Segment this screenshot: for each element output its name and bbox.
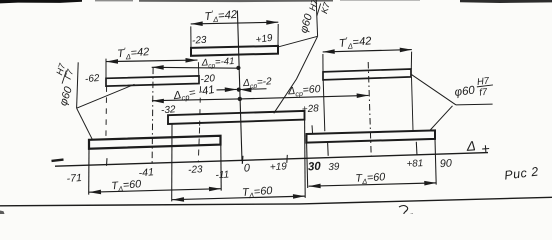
extension line 39 upper [322, 54, 324, 72]
axis label -41 [138, 166, 154, 179]
svg-text:39: 39 [328, 161, 340, 173]
svg-text:φ60: φ60 [454, 85, 476, 99]
axis label -23 [188, 164, 203, 176]
caption Рис 2 [504, 164, 540, 182]
label +19 upper [255, 33, 274, 46]
label -32 [161, 104, 177, 116]
label Δcp=-41 upper [200, 56, 234, 70]
fit label Ø60 H7/f7 [453, 75, 494, 101]
extension line 81 upper [410, 52, 412, 69]
svg-text:Δ: Δ [465, 138, 476, 154]
label -23 upper [192, 35, 208, 47]
leader branch to upper zone H7/f7 [412, 75, 457, 105]
tolerance zone rect middle lower (-32..+28) [168, 111, 305, 124]
leader stem H7/K7 [316, 0, 317, 36]
fit label Ø60 H7/K7 [298, 0, 332, 38]
dimension line Δcp=60 [240, 93, 369, 99]
svg-text:90: 90 [440, 157, 453, 170]
svg-text:-32: -32 [161, 104, 177, 116]
projection line 39 tick at axis [327, 142, 330, 156]
svg-text:+28: +28 [301, 103, 319, 115]
extension line -11 lower [220, 145, 222, 191]
axis label +81 [406, 158, 423, 170]
label T'Δ=42 right [338, 33, 373, 52]
axis label -11 [215, 169, 229, 181]
extension line 90 lower [435, 139, 436, 185]
dimension arrow segment toward 0 [217, 87, 237, 92]
extension line +28 lower [304, 120, 307, 198]
leader branch to lower zone H7/f7 [430, 106, 453, 131]
axis tick 0 [241, 156, 244, 164]
svg-text:-71: -71 [66, 172, 82, 185]
label TΔ=60 middle [242, 185, 274, 201]
svg-text:+: + [481, 141, 491, 158]
axis label plus sign [481, 141, 491, 158]
axis tick -62 [106, 158, 109, 166]
leader branch to lower zone H7/Г7 [77, 108, 93, 139]
dimension line T'Δ=42 right [323, 48, 412, 54]
leader branch to lower zone H7/K7 [274, 36, 318, 113]
leader stem H7/Г7 [77, 62, 79, 108]
tolerance zone rect right upper (39..81) [323, 69, 411, 80]
junction dot on 0 line upper [237, 88, 241, 92]
axis tick +19 [286, 155, 289, 163]
projection line 39 segment [323, 80, 325, 131]
axis label +19 [270, 161, 288, 173]
label -62 [85, 73, 101, 85]
extension line -20 upper [197, 62, 199, 75]
label T'Δ=42 middle [204, 7, 238, 25]
svg-text:-41: -41 [138, 166, 154, 179]
axis label 0 [243, 162, 251, 174]
scan blemish bottom-left corner [0, 211, 5, 215]
label Δcp=-41 big [172, 84, 216, 104]
tolerance zone rect left upper (-62..-20) [106, 76, 199, 86]
leader underline H7/f7 [456, 103, 493, 106]
extension line -62 upper [105, 59, 107, 78]
axis line Delta [55, 153, 488, 167]
dimension line Δcp=-41 upper [152, 65, 239, 70]
extension line -23 upper [190, 26, 192, 47]
extension line -71 lower [88, 149, 90, 195]
projection line +81 segment [412, 77, 414, 130]
projection line -23 (dashed) [198, 128, 199, 163]
label Δcp=60 [287, 83, 321, 99]
dimension line Δcp=-41 lower [152, 99, 240, 104]
fit label Ø60 H7/Г7 [46, 61, 82, 107]
junction dot upper [236, 66, 240, 70]
centre line +60 (dash-dot) [368, 62, 371, 156]
dimension line TΔ=60 left [89, 187, 221, 195]
projection stub at 30 [311, 125, 314, 134]
projection line -62 (dashed) [105, 86, 108, 139]
svg-text:+19: +19 [270, 161, 288, 173]
junction dot on 0 line lower [238, 97, 242, 101]
tolerance zone rect middle upper (-23..+19) [191, 46, 278, 56]
pointer line Δcp=-2 [239, 88, 266, 93]
axis label minus sign [52, 160, 64, 161]
projection line +81 tick at axis [415, 142, 418, 156]
svg-text:-23: -23 [188, 164, 203, 176]
dimension line T'Δ=42 left [106, 58, 198, 64]
label T'Δ=42 left [117, 44, 150, 62]
svg-text:+81: +81 [406, 158, 423, 170]
axis label 39 [328, 161, 340, 173]
scan artifact: dark strip along top edge [0, 0, 552, 3]
leader branch to upper zone H7/K7 [279, 36, 318, 47]
axis label Delta [465, 138, 476, 154]
dimension line TΔ=60 right [309, 181, 437, 188]
label Δcp=-2 [242, 76, 273, 91]
dimension line TΔ=60 middle [172, 194, 305, 202]
page rule line [0, 197, 552, 206]
svg-text:30: 30 [308, 161, 322, 174]
axis label 30 [308, 161, 322, 174]
leader branch to upper zone H7/Г7 [77, 84, 135, 108]
handwritten mark below rule [399, 206, 413, 216]
svg-text:-11: -11 [215, 169, 229, 181]
tolerance zone rect left lower (-71..-11) [89, 136, 221, 149]
axis label -71 [66, 172, 82, 185]
svg-text:-23: -23 [192, 35, 208, 47]
label TΔ=60 left [111, 178, 142, 194]
tolerance zone rect right lower (30..90) [307, 130, 436, 142]
extension line -32 lower [171, 124, 173, 201]
svg-text:-62: -62 [85, 73, 101, 85]
label +28 [301, 103, 319, 115]
extension line 30 lower [307, 143, 308, 188]
centre line -41 (dash-dot) [152, 68, 153, 165]
projection line -20 (dashed) [199, 86, 202, 127]
extension line +19 upper [277, 24, 279, 46]
label -20 [200, 73, 216, 85]
svg-text:-20: -20 [200, 73, 216, 85]
axis label 90 [440, 157, 453, 170]
centre line -2 / 0 ordinate [237, 11, 242, 162]
dimension line T'Δ=42 middle [191, 20, 279, 26]
label TΔ=60 right [355, 171, 386, 186]
